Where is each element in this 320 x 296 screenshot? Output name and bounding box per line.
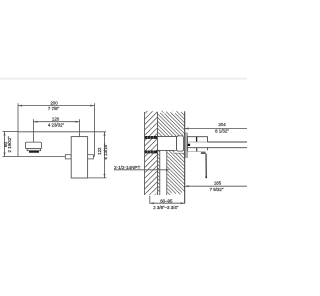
spout top line through body (188, 141, 208, 143)
valve cavity below nut (174, 150, 185, 153)
screw dot (188, 144, 190, 146)
extension line right of dim 200 / plate right edge (93, 103, 95, 156)
dim 60 arrows (4, 132, 6, 136)
dim 60-95 extension lines (149, 196, 151, 204)
threaded inlet upper (145, 136, 157, 139)
spout front: aerator dark band (29, 151, 39, 153)
wall hatch right zone (157, 108, 184, 198)
dim 122 vertical line (104, 132, 106, 178)
body seam vertical (196, 148, 198, 152)
body bottom edge light (187, 150, 205, 152)
dim 60-95 arrows (150, 202, 154, 204)
plate bottom edge (18, 156, 71, 158)
dim 122 arrows (104, 132, 106, 136)
threaded inlet lower (145, 151, 158, 154)
page background (0, 0, 247, 296)
dim 204 line (185, 128, 247, 130)
lever (205, 154, 207, 178)
svg-text:120: 120 (52, 116, 60, 121)
svg-text:204: 204 (218, 122, 226, 127)
NPT leader line (114, 169, 166, 171)
svg-text:4 23/32": 4 23/32" (48, 122, 65, 127)
body groove above spout (196, 137, 198, 142)
flange plate (185, 133, 187, 158)
valve body cutout (157, 137, 176, 151)
dim 185 line (185, 185, 247, 187)
svg-text:8 1/32": 8 1/32" (215, 128, 229, 133)
wall hatch left zone (145, 108, 185, 198)
extension line spout centerline (33, 119, 35, 142)
svg-text:200: 200 (50, 101, 58, 106)
lever joint (201, 152, 206, 154)
dim 60-95 line (150, 202, 185, 204)
svg-text:2 3/8"–3 3/4": 2 3/8"–3 3/4" (153, 205, 179, 210)
handle body side fill (187, 137, 207, 152)
dim 200 arrows (18, 105, 22, 107)
handle front body (71, 137, 87, 178)
dim 204 arrow (185, 128, 189, 130)
wall left edge (144, 112, 146, 195)
svg-text:2-1/2-14NPT: 2-1/2-14NPT (114, 165, 140, 170)
svg-text:185: 185 (214, 181, 222, 186)
plate top edge (18, 131, 106, 133)
supply pipe cutout (159, 151, 167, 195)
handle body side outline (187, 137, 207, 152)
svg-text:4 13/16": 4 13/16" (103, 143, 108, 160)
extension line handle centerline (78, 119, 80, 136)
svg-text:7 7/8": 7 7/8" (48, 106, 60, 111)
svg-text:60–95: 60–95 (160, 198, 173, 203)
spout front: upper box (25, 142, 41, 149)
spout front: middle collar (27, 149, 40, 151)
spout root cutout above nut (177, 136, 185, 151)
dim 185 arrow (185, 185, 189, 187)
lever tip (205, 177, 207, 179)
spout side bar (188, 142, 247, 148)
svg-text:2 19/32": 2 19/32" (7, 136, 12, 153)
wall mid line (156, 112, 158, 137)
handle base tab left (65, 155, 71, 159)
valve nut (177, 136, 184, 151)
extension line left of dim 200 / plate left edge (17, 103, 19, 156)
dim 200 line (18, 105, 94, 107)
handle base tab right (88, 155, 94, 159)
dim 60 extension lines (3, 131, 18, 133)
dim 60 vertical line (4, 132, 6, 157)
dim 120 arrows (34, 121, 38, 123)
wall surface line (184, 111, 186, 203)
dim 120 line (34, 121, 80, 123)
svg-text:7 9/32": 7 9/32" (210, 187, 224, 192)
svg-text:122: 122 (97, 147, 102, 155)
dim 122 bottom extension (88, 177, 107, 179)
page divider line (0, 78, 247, 80)
